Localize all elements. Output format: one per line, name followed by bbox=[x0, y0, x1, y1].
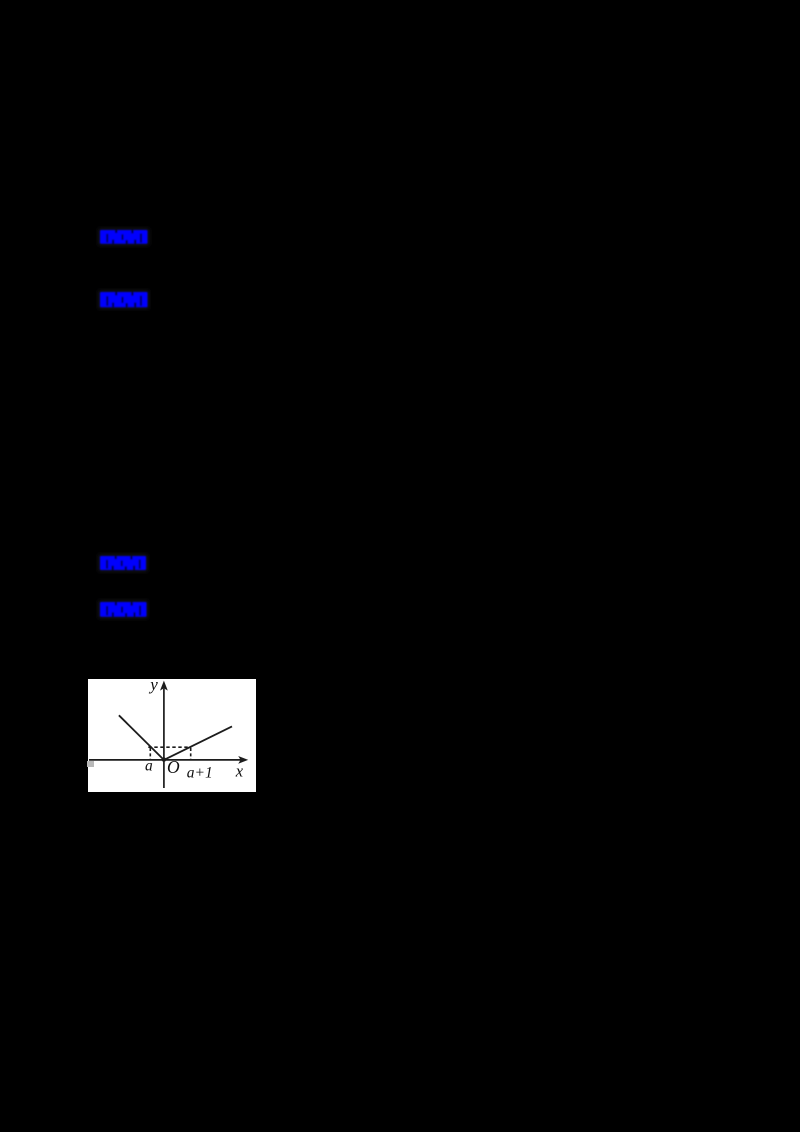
svg-text:x: x bbox=[235, 762, 244, 781]
dashed vertical at x=a bbox=[149, 748, 151, 760]
label 4: blue tag 【点评】 bbox=[96, 598, 151, 621]
origin dot bbox=[162, 758, 166, 762]
x-axis bbox=[89, 759, 241, 761]
svg-text:a: a bbox=[145, 758, 153, 775]
right branch of V bbox=[164, 727, 232, 761]
svg-text:O: O bbox=[167, 757, 180, 777]
label 1: blue tag 【考点】 bbox=[96, 226, 152, 248]
gray selection handle on left of x-axis bbox=[87, 761, 94, 768]
x-axis arrowhead bbox=[238, 756, 248, 764]
svg-text:a+1: a+1 bbox=[187, 765, 213, 782]
dashed horizontal f(a)=f(a+1) bbox=[148, 746, 191, 748]
label 2: blue tag 【分析】 bbox=[96, 288, 152, 311]
dashed vertical at x=a+1 bbox=[190, 748, 192, 760]
left branch of V bbox=[119, 716, 164, 761]
y-axis arrowhead bbox=[160, 681, 168, 691]
svg-text:y: y bbox=[148, 679, 158, 694]
figure: white graph box bbox=[88, 679, 256, 792]
y-axis bbox=[163, 689, 165, 789]
label 3: blue tag 【解答】 bbox=[96, 552, 150, 574]
